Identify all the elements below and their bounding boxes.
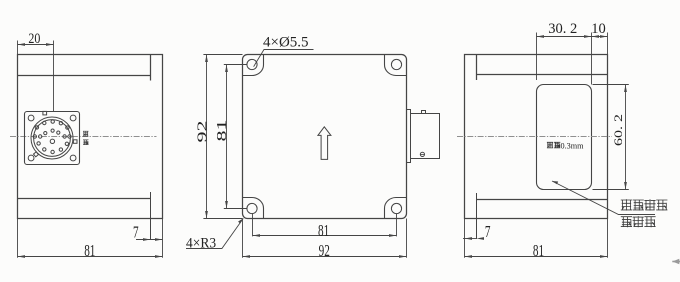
dim 92 left extensions xyxy=(203,55,242,219)
dim 20 line xyxy=(18,44,54,46)
label 4xR3 leader xyxy=(186,218,243,248)
groove label leader arrowhead xyxy=(552,181,558,184)
dim 92 bottom extensions xyxy=(243,219,407,258)
step line top xyxy=(477,74,608,76)
svg-text:30. 2: 30. 2 xyxy=(548,21,577,37)
svg-text:4×Ø5.5: 4×Ø5.5 xyxy=(263,35,309,51)
step vertical edge bottom / dim7 extension xyxy=(150,192,152,240)
dim texts xyxy=(28,21,625,261)
flange hole top-left xyxy=(28,115,34,121)
sunk text in groove xyxy=(547,142,560,148)
ear arc bottom-right xyxy=(384,197,406,218)
tiny label beside flange xyxy=(83,131,89,145)
svg-text:81: 81 xyxy=(318,222,329,241)
svg-text:7: 7 xyxy=(133,223,139,242)
plate outline xyxy=(243,55,407,219)
step vertical top xyxy=(476,55,478,81)
svg-text:4×R3: 4×R3 xyxy=(186,235,216,252)
hole bottom-right xyxy=(391,203,401,213)
svg-text:81: 81 xyxy=(533,242,544,261)
centerline right view xyxy=(457,136,612,138)
step vertical edge top xyxy=(150,55,152,81)
step line bottom xyxy=(477,199,608,201)
block arrow up xyxy=(318,127,331,160)
svg-text:20: 20 xyxy=(28,30,40,47)
fake CJK label line2 (qian bao hu) xyxy=(621,216,656,227)
svg-text:92: 92 xyxy=(195,121,210,143)
dim 7 line left view xyxy=(136,239,163,241)
step line top xyxy=(18,75,151,77)
pins outer ring xyxy=(43,121,46,124)
bayonet lug bottom-left xyxy=(34,152,39,157)
svg-text:92: 92 xyxy=(319,242,330,261)
groove label leader xyxy=(552,181,655,215)
side connector small square xyxy=(422,111,426,114)
dim 7 line right view xyxy=(463,238,477,240)
svg-text:10: 10 xyxy=(591,21,606,37)
dim 30.2/10 line xyxy=(537,36,608,38)
dim 7 arrows left view xyxy=(143,238,163,241)
dim 81 extensions right view xyxy=(465,219,608,258)
dim 81 arrows right view xyxy=(465,255,608,258)
dim 81 left extensions xyxy=(224,65,248,209)
bayonet lug top xyxy=(43,111,47,115)
svg-text:81: 81 xyxy=(84,242,95,261)
dim 81 line right view xyxy=(465,256,608,258)
centerline left view xyxy=(10,136,157,138)
dim 60.2 arrows xyxy=(624,85,627,190)
svg-text:81: 81 xyxy=(215,120,230,142)
dim 81 bottom arrows xyxy=(253,234,397,237)
svg-text:60. 2: 60. 2 xyxy=(612,114,626,146)
hole top-right xyxy=(391,59,401,69)
dim 92 left arrows xyxy=(205,55,208,219)
dim 81 bottom extensions xyxy=(253,213,397,236)
flange hole top-right xyxy=(70,115,76,121)
body outline left view xyxy=(18,55,163,219)
bayonet lug right xyxy=(73,140,77,144)
fake CJK label line1 (cao nei pen tu) xyxy=(621,199,668,210)
flange hole bottom-right xyxy=(70,155,76,161)
dim 20 extension stub left xyxy=(17,41,19,55)
dim 92 bottom line xyxy=(243,256,407,258)
flange hole bottom-left xyxy=(28,155,34,161)
dim 20 arrows xyxy=(18,43,54,46)
dim 30.2/10 arrows xyxy=(537,35,608,38)
side connector screw xyxy=(420,152,424,156)
ear arc top-right xyxy=(384,55,406,76)
dim 81 line left view xyxy=(18,256,163,258)
dim 92 left line xyxy=(206,55,208,219)
pin center xyxy=(50,139,54,143)
label 4xR3 arrowhead xyxy=(238,218,243,223)
groove rounded rect xyxy=(537,85,592,190)
hole top-left xyxy=(247,59,257,69)
svg-text:7: 7 xyxy=(485,223,491,242)
dim 81 left line xyxy=(226,65,228,209)
body outline right view xyxy=(465,55,608,219)
svg-text:0.3mm: 0.3mm xyxy=(561,142,585,151)
bottom-right gray arrow xyxy=(672,261,680,263)
dim 60.2 line xyxy=(625,85,627,190)
dim 60.2 extensions xyxy=(593,85,629,190)
side connector body xyxy=(411,114,440,159)
dim 30.2 / 10 extensions xyxy=(537,33,608,85)
dim 81 left arrows xyxy=(225,65,228,209)
dim 81 extensions left view xyxy=(18,219,163,258)
step vertical bottom / dim7 ext xyxy=(476,193,478,239)
dim 92 bottom arrows xyxy=(243,255,407,258)
step line bottom xyxy=(18,198,151,200)
dim 81 bottom line xyxy=(253,235,397,237)
dim 7 arrows right view xyxy=(465,237,485,240)
connector shell inner circle xyxy=(34,120,71,157)
ear arc top-left xyxy=(243,55,264,76)
hole bottom-left xyxy=(247,203,257,213)
ear arc bottom-left xyxy=(243,198,264,219)
connector flange xyxy=(25,112,80,165)
connector shell outer circle xyxy=(31,117,73,159)
dim 81 arrows left view xyxy=(18,255,163,258)
dim 20 extension line right xyxy=(53,41,55,112)
pins inner ring xyxy=(51,129,54,132)
side connector flange xyxy=(407,110,411,163)
label 4xD5.5 leader xyxy=(254,50,314,67)
